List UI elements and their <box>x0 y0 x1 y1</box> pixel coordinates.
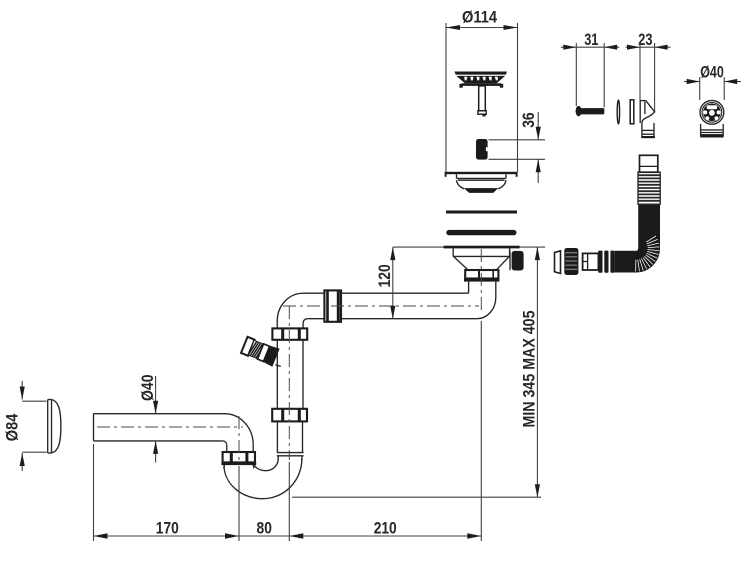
svg-text:31: 31 <box>584 31 598 49</box>
wall bend piece <box>640 101 655 138</box>
drain tail nut divider 2 <box>492 270 494 279</box>
upper pipe bottom edge <box>307 318 477 320</box>
trap inlet nut band 1 <box>230 452 233 462</box>
dim Ø40 right line right <box>724 81 741 83</box>
dim 31 right extension <box>603 43 605 108</box>
trap U inner arc <box>253 459 278 471</box>
bend piece tube stripe 1 <box>642 129 654 131</box>
dim Ø40 left top arrow <box>153 401 158 414</box>
nozzle cap <box>241 337 254 356</box>
spoke cutout bottom right <box>715 116 719 120</box>
strainer stem tip <box>478 111 486 114</box>
centerline outlet pipe <box>97 426 243 428</box>
compression nut band 1 <box>326 290 329 321</box>
riser nut 1 band 1 <box>281 328 284 339</box>
hose end fitting spoke disk <box>703 104 721 122</box>
dim 120 top arrow <box>390 247 395 260</box>
upper pipe top edge <box>303 292 469 294</box>
outlet pipe end cap <box>93 414 95 441</box>
hose end tube stripe 2 <box>701 132 724 134</box>
trap bottom reference line <box>292 496 541 498</box>
flange bowl bottom lip <box>464 188 498 193</box>
bend piece tube bottom bar <box>641 136 655 138</box>
riser left edge <box>276 340 278 409</box>
riser right edge upper <box>302 323 304 328</box>
riser stub right below socket <box>301 456 303 461</box>
dim 36 bottom arrow <box>536 159 541 172</box>
svg-text:80: 80 <box>257 520 272 538</box>
upper flange rim bar <box>445 172 518 174</box>
strainer bottom ring <box>462 83 501 86</box>
flange bowl second line <box>458 179 505 181</box>
centerline upper pipe <box>283 305 479 307</box>
bend piece inner line <box>644 102 646 115</box>
hose inlet fitting <box>583 253 599 270</box>
hose top cuff <box>640 155 658 172</box>
riser nut 2 <box>272 409 307 422</box>
spoke cutout center <box>709 110 715 116</box>
riser right edge <box>302 340 304 409</box>
flange bowl left wall <box>456 174 458 178</box>
dim Ø40 right left arrow <box>687 79 700 84</box>
hose top cuff line <box>640 165 658 167</box>
wall escutcheon back plate <box>48 400 52 454</box>
bottom extension at pipe end <box>93 444 95 541</box>
hose gasket <box>555 251 561 274</box>
dim Ø40 left line lower <box>155 441 157 463</box>
dim 23 left extension <box>639 43 641 101</box>
nozzle white band <box>257 344 269 362</box>
dim Ø40 left bottom arrow <box>153 441 158 454</box>
dim 31 line <box>561 46 619 48</box>
flange bowl left curve <box>457 180 465 189</box>
dim 120 line <box>392 247 394 319</box>
outlet pipe bottom edge <box>94 440 223 442</box>
centerline riser <box>288 306 290 460</box>
strainer stem <box>479 86 486 111</box>
dim Ø84 top extension <box>22 400 46 402</box>
nozzle boss line <box>275 365 280 367</box>
dim Ø84 bottom arrow <box>20 453 25 466</box>
sink plane thin line <box>393 246 545 248</box>
riser stub left below socket <box>277 456 279 460</box>
flange bowl right curve <box>498 180 506 189</box>
hose upper ribbed sleeve <box>638 172 660 204</box>
bottom extension at riser <box>288 462 290 541</box>
bottom extension at drain center <box>480 321 482 541</box>
svg-text:Ø114: Ø114 <box>462 9 497 27</box>
corrugated hose body <box>615 204 649 262</box>
svg-text:120: 120 <box>376 264 394 287</box>
strainer stem tip nub <box>482 114 485 116</box>
dim 210 left arrow <box>289 533 303 538</box>
spoke cutout bottom left <box>706 116 710 120</box>
screw head <box>576 106 582 116</box>
riser lower right edge <box>302 421 304 452</box>
dimension Ø114 right arrow <box>504 25 518 30</box>
overflow knob <box>512 251 524 271</box>
upper pipe left elbow inner <box>303 319 307 323</box>
drain body shoulder line <box>453 255 509 257</box>
dim 36 top arrow <box>536 127 541 140</box>
screw shaft <box>581 108 605 114</box>
dim 31 right arrow <box>604 45 617 50</box>
bend piece diagonal <box>646 101 655 113</box>
upper pipe left elbow outer <box>277 293 303 321</box>
upper pipe right elbow outer <box>477 298 496 319</box>
hose end tube stripe 1 <box>701 129 724 131</box>
dishwasher nozzle <box>241 336 280 367</box>
riser nut 1 <box>272 328 307 339</box>
dim Ø84 line upper <box>21 381 23 400</box>
extension line right of Ø114 box <box>517 23 519 172</box>
extension line left of Ø114 box <box>445 23 447 172</box>
downpipe left edge <box>226 445 228 452</box>
hose end tube bottom bar <box>700 134 723 137</box>
nozzle dark base <box>262 345 279 367</box>
riser lower left edge <box>276 421 278 452</box>
hose end fitting inner circle <box>702 102 722 122</box>
dim Ø84 line lower <box>21 453 23 471</box>
dim 170 right arrow <box>225 533 239 538</box>
drain tail nut bottom lip <box>464 278 499 281</box>
hose nut <box>564 248 578 275</box>
hose inlet fitting mid line <box>583 261 588 263</box>
strainer ring right tab <box>500 84 503 88</box>
dimension Ø114 left arrow <box>446 25 460 30</box>
flange bowl upper line <box>457 177 506 179</box>
dim Ø84 top arrow <box>20 387 25 400</box>
trap inlet nut band 2 <box>245 452 248 462</box>
trap nut skirt left <box>223 465 226 468</box>
tailpipe right edge <box>495 282 497 298</box>
hose bend corrugation highlights <box>636 236 660 272</box>
dim Ø40 left line upper <box>155 376 157 414</box>
sink flange bar <box>444 246 520 249</box>
bend piece top edge <box>640 100 646 102</box>
dim 31 left arrow <box>563 45 576 50</box>
hose end tube right <box>722 124 724 135</box>
svg-text:MIN 345 MAX 405: MIN 345 MAX 405 <box>521 311 539 428</box>
nozzle ribbed section <box>248 340 263 358</box>
svg-text:Ø40: Ø40 <box>700 64 724 82</box>
plug notch <box>486 147 488 151</box>
strainer slots <box>464 77 498 81</box>
spoke cutout top slot <box>707 105 718 109</box>
hose inlet fitting divider <box>587 253 589 270</box>
cone washer edge view <box>617 100 619 124</box>
strainer ring left tab <box>459 84 462 88</box>
svg-text:Ø40: Ø40 <box>139 375 157 402</box>
flange bowl right wall <box>505 174 507 178</box>
spoke cutout right <box>717 110 721 114</box>
bottom dimension line <box>94 535 482 537</box>
dimension Ø114 line <box>446 27 518 29</box>
dim 36 line upper <box>537 112 539 140</box>
dim 31 left extension <box>575 43 577 106</box>
dim Ø40 right right extension <box>723 77 725 100</box>
wall escutcheon dome <box>52 400 61 454</box>
hose collar rib 3 <box>610 251 615 273</box>
drain tail nut <box>465 270 498 279</box>
dim 36 top leader <box>489 139 546 141</box>
trap U outer arc <box>224 459 302 499</box>
dim MIN345MAX405 line <box>536 247 538 497</box>
centerline downpipe <box>238 416 240 464</box>
upper flange rim right tab <box>516 174 518 177</box>
drain body right funnel <box>496 256 509 269</box>
dim 170 left arrow <box>94 533 108 538</box>
bend piece left edge <box>639 101 641 123</box>
hose end tube left <box>700 124 702 135</box>
tailpipe left edge <box>468 282 470 294</box>
dim MIN345MAX405 bottom arrow <box>535 484 540 497</box>
bottom extension at downpipe <box>238 466 240 541</box>
hose collar rib 1 <box>598 251 602 273</box>
outlet pipe top edge <box>94 413 225 415</box>
upper flange rim left tab <box>445 174 447 177</box>
trap inlet nut <box>223 452 255 462</box>
bend piece tube stripe 2 <box>642 133 654 135</box>
trap inlet nut bottom lip <box>221 462 256 465</box>
riser socket line 1 <box>277 452 304 454</box>
drain body <box>453 248 523 281</box>
centerline drain tail <box>480 249 482 313</box>
strainer basket slotted cone <box>456 76 505 83</box>
riser socket line 2 <box>277 455 304 457</box>
riser nut 2 band 2 <box>298 409 301 422</box>
hose sleeve ribs <box>638 175 660 201</box>
svg-text:Ø84: Ø84 <box>4 414 22 442</box>
dim 23 right extension <box>654 43 656 113</box>
overflow knob bracket <box>509 251 511 270</box>
dim MIN345MAX405 top arrow <box>535 247 540 260</box>
spoke cutout left <box>703 110 707 114</box>
dim Ø40 right right arrow <box>724 79 737 84</box>
bend piece tube left <box>641 123 643 138</box>
dim 23 left arrow <box>627 45 640 50</box>
strainer basket top cap <box>455 72 507 75</box>
drain tail nut divider 1 <box>478 270 480 279</box>
trap nut skirt right <box>252 465 255 468</box>
outlet elbow inner <box>223 441 227 445</box>
drain body left wall <box>452 248 454 256</box>
dim 36 line lower <box>537 159 539 183</box>
hose nut ribs <box>565 253 577 269</box>
downpipe right edge <box>252 445 254 452</box>
flat washer edge view <box>630 100 634 124</box>
riser nut 1 band 2 <box>298 328 301 339</box>
outlet elbow outer <box>225 414 254 445</box>
compression nut on upper pipe <box>324 290 341 321</box>
dim 36 bottom leader <box>489 158 546 160</box>
dim Ø40 right left extension <box>699 77 701 100</box>
basket plug <box>476 139 488 160</box>
hose end fitting outer circle <box>700 100 724 124</box>
flat washer <box>446 211 517 214</box>
dim 23 line <box>626 46 671 48</box>
dim Ø84 bottom extension <box>22 451 46 453</box>
hose collar rib 2 <box>604 251 608 273</box>
riser nut 2 band 1 <box>281 409 284 422</box>
bevel washer <box>446 230 516 235</box>
svg-text:210: 210 <box>374 520 397 538</box>
bend piece tube right <box>653 123 655 138</box>
compression nut band 2 <box>337 290 340 321</box>
svg-text:36: 36 <box>520 112 538 127</box>
riser left edge upper <box>276 321 278 328</box>
drain body right wall <box>509 248 511 256</box>
svg-text:170: 170 <box>156 520 179 538</box>
dim 120 bottom arrow <box>390 306 395 319</box>
dim Ø40 right line left <box>684 81 700 83</box>
bend piece s-curve <box>642 111 655 123</box>
drain body left funnel <box>453 256 467 269</box>
dim 23 right arrow <box>655 45 668 50</box>
dim 210 right arrow <box>467 533 481 538</box>
